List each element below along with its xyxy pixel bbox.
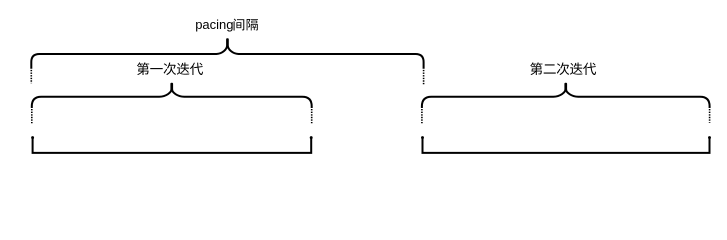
svg-text:pacing: pacing: [195, 17, 233, 32]
